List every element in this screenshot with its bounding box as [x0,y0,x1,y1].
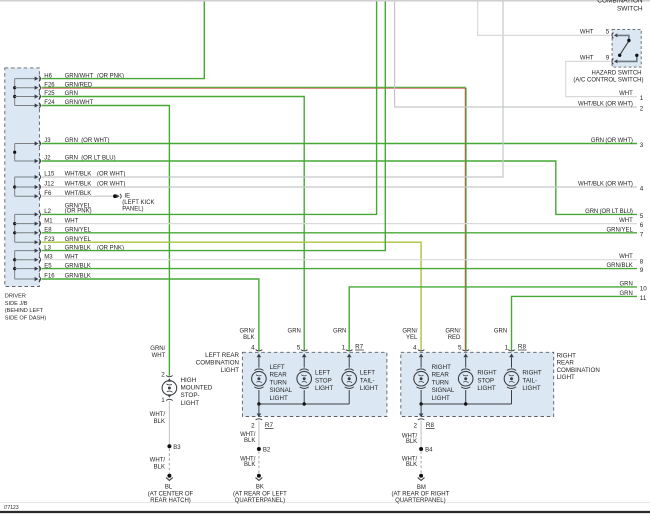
svg-text:(LEFT KICK: (LEFT KICK [122,200,154,206]
svg-text:GRN: GRN [333,328,346,334]
wire WHT/BLK (OR WHT) from top edge to off-page connector 2 [395,2,637,108]
ground BK [256,474,263,481]
label: F25 GRN [44,91,78,97]
wire L3 GRN/BLK (OR PNK): right then up to top edge [42,2,386,251]
svg-text:WHT: WHT [619,218,633,224]
pin 5 of right rear combination light [462,350,469,358]
pin 4 of left rear combination light [256,350,263,358]
svg-text:SWITCH: SWITCH [617,5,643,12]
wire WHT/BLK from left rear combination light to connector B2 [258,420,260,447]
connector B2 [257,447,271,453]
label: WHT at connector 8 [619,254,633,260]
svg-text:LEFT REAR: LEFT REAR [205,352,239,359]
label: GRN/WHT (high mounted stop light wire) [150,346,165,359]
svg-text:TURN: TURN [432,379,449,386]
label: BL (AT CENTER OF REAR HATCH) [148,485,194,504]
svg-text:LIGHT: LIGHT [522,385,540,392]
pin L2 [15,212,41,218]
label: H6 GRN/WHT [44,73,124,79]
label: F16 GRN/BLK [44,274,91,280]
svg-text:5: 5 [640,213,644,220]
svg-text:R7: R7 [355,344,364,351]
label: WHT/BLK (below B3) [150,457,166,470]
lamp: LEFT REAR TURN SIGNAL LIGHT [252,357,267,404]
svg-text:REAR: REAR [270,372,288,379]
lamp: LEFT TAIL-LIGHT [342,357,357,404]
svg-text:B4: B4 [425,447,433,453]
off-page connector 7 [640,231,644,238]
ground bus inside left rear combination light [257,402,349,413]
J/B internal bus B (J3/J2) [13,144,16,162]
svg-text:WHT: WHT [619,254,633,260]
svg-text:BLK: BLK [154,419,165,425]
label: WHT (hazard pin 5 wire) [580,29,594,35]
svg-text:(AT REAR OF LEFT: (AT REAR OF LEFT [233,491,287,497]
wire J2 GRN (OR LT BLU): right, jog down, to off-page connector 5 [42,161,638,214]
component box: RIGHT REAR COMBINATION LIGHT [401,352,554,416]
label: GRN/YEL at connector 7 [606,227,633,233]
svg-text:STOP-: STOP- [181,392,200,399]
svg-text:RIGHT: RIGHT [522,370,541,377]
svg-text:HAZARD SWITCH: HAZARD SWITCH [592,71,642,77]
svg-text:(BEHIND LEFT: (BEHIND LEFT [5,308,44,314]
wire WHT/BLK from B4 to ground BM (in-line) [420,451,422,473]
pin E8 [15,230,41,236]
wire L15 WHT/BLK (OR WHT): right then up to top edge [42,2,504,178]
svg-text:9: 9 [640,267,644,274]
label: GRN (left tail wire) [333,328,346,334]
svg-text:REAR: REAR [557,360,575,367]
wire WHT/BLK from right rear combination light to connector B4 [420,420,422,447]
label: pin 5 (right stop) [458,344,462,351]
label: pin 4 (left rear turn signal) [251,344,255,351]
svg-text:1: 1 [161,397,165,404]
label: pin 1 (right tail) [505,344,509,351]
label: BK (AT REAR OF LEFT QUARTERPANEL) [233,485,287,504]
svg-text:2: 2 [251,422,255,429]
label: L15 WHT/BLK [44,172,125,178]
pin M3 [15,257,41,263]
svg-text:GRN (OR LT BLU): GRN (OR LT BLU) [585,209,633,215]
label: GRN/BLK (left turn wire) [240,328,255,341]
off-page connector 3 [640,142,644,149]
svg-text:R8: R8 [426,422,435,429]
label: WHT/BLK (above B3) [150,412,166,425]
off-page connector 6 [640,222,644,229]
svg-text:8: 8 [640,258,644,265]
label: L2 GRN/YEL (OR PNK) [44,204,91,215]
label: GRN (OR WHT) at connector 3 [591,138,633,144]
svg-text:YEL: YEL [406,335,418,341]
svg-text:BLK: BLK [154,464,165,470]
pin J12 [15,184,41,190]
svg-text:WHT: WHT [619,91,633,97]
label: pin 4 (right rear turn signal) [413,344,417,351]
svg-text:LIGHT: LIGHT [315,385,333,392]
label: DRIVER SIDE J/B (BEHIND LEFT SIDE OF DASH) [5,293,46,321]
ground BL [166,474,173,481]
svg-text:SIDE J/B: SIDE J/B [5,301,28,307]
label: R7 (bottom) [265,422,274,429]
svg-text:9: 9 [606,54,610,61]
wire F23 GRN/YEL: right then down to right turn signal light pin 4 [42,242,422,350]
svg-text:BLK: BLK [243,335,254,341]
svg-text:4: 4 [413,344,417,351]
svg-text:BL: BL [165,485,173,491]
wire J12 WHT/BLK (OR WHT): straight to off-page connector 4 [42,186,638,188]
label: M1 WHT [44,218,78,224]
off-page connector 2 [640,106,644,113]
pin F6 [15,193,41,199]
svg-text:WHT: WHT [580,29,594,35]
wire F16 GRN/BLK: right then down to left turn signal light pin 4 [42,279,259,350]
wire M1 WHT: straight to off-page connector 6 [42,223,638,225]
svg-text:TAIL-: TAIL- [522,377,537,384]
pin L3 [15,248,41,254]
hazard switch box [612,29,641,67]
diagram id i77123 [4,505,19,511]
label: R7 (top) [355,344,364,351]
label: WHT/BLK (below B2) [240,456,256,468]
svg-text:QUARTERPANEL): QUARTERPANEL) [235,498,285,504]
svg-text:BLK: BLK [244,462,255,468]
label: pin 1 (left tail) [342,344,346,351]
wire WHT/BLK from high mounted stop light to connector B3 [168,401,170,445]
lamp: RIGHT REAR TURN SIGNAL LIGHT [414,357,429,404]
pin F23 [15,239,41,245]
lamp: HIGH MOUNTED STOP-LIGHT [162,376,177,401]
svg-text:IE: IE [125,194,131,200]
svg-text:TURN: TURN [270,379,287,386]
svg-text:TAIL-: TAIL- [360,377,375,384]
svg-text:BK: BK [256,485,264,491]
label: GRN (OR LT BLU) at connector 5 [585,209,633,215]
wire WHT/BLK from B3 to ground BL (in-line) [168,449,170,474]
pin J3 [15,141,41,147]
svg-text:(A/C CONTROL SWITCH): (A/C CONTROL SWITCH) [573,78,643,84]
svg-text:RIGHT: RIGHT [432,364,451,371]
svg-text:WHT/: WHT/ [150,457,166,463]
label: WHT/BLK (OR WHT) at connector 4 [578,182,633,188]
svg-text:GRN: GRN [494,328,507,334]
svg-text:RED: RED [448,335,461,341]
svg-text:i77123: i77123 [4,505,19,511]
svg-text:GRN (OR WHT): GRN (OR WHT) [591,138,633,144]
ground BM [418,474,425,481]
splice IE [113,194,121,199]
svg-text:HIGH: HIGH [181,377,197,384]
label: F23 GRN/YEL [44,237,91,243]
svg-text:5: 5 [297,344,301,351]
svg-text:STOP: STOP [477,377,494,384]
wire L2 GRN/YEL (OR PNK): right then up to top edge [42,2,377,215]
svg-text:LEFT: LEFT [315,370,330,377]
svg-text:BLK: BLK [406,439,417,445]
wire GRN: off-page connector 10 to left tail light pin 1 [349,287,637,350]
wire H6 GRN/WHT (OR PNK): right then up to top edge [42,2,205,79]
label: HIGH MOUNTED STOP-LIGHT [181,377,213,407]
svg-text:(OR PNK): (OR PNK) [65,209,92,215]
pin 2 of right rear combination light [418,414,425,420]
wire WHT from top edge to hazard switch pin 5 [478,2,610,36]
label: WHT at connector 1 [619,91,633,97]
wire J3 GRN (OR WHT): straight to off-page connector 3 [42,143,638,145]
svg-text:3: 3 [640,142,644,149]
off-page connector 1 [640,95,644,102]
svg-text:WHT/: WHT/ [150,412,166,418]
wire F26 GRN/RED: right then down to right stop light pin 5 [42,87,467,350]
label: J12 WHT/BLK [44,182,125,188]
label: GRN/RED (right stop wire) [445,328,461,341]
pin 1 of right rear combination light [508,350,515,358]
svg-text:4: 4 [640,186,644,193]
ground bus inside right rear combination light [419,402,511,413]
label: WHT/BLK (above B4) [402,433,418,445]
lamp: RIGHT STOP LIGHT [458,357,473,404]
svg-text:BLK: BLK [406,462,417,468]
svg-text:4: 4 [251,344,255,351]
off-page connector 9 [640,267,644,274]
pin J2 [15,158,41,164]
J/B internal bus E (L3/M3/E5/F16) [13,251,16,279]
svg-text:STOP: STOP [315,377,332,384]
svg-text:LIGHT: LIGHT [360,385,378,392]
svg-text:WHT/BLK (OR WHT): WHT/BLK (OR WHT) [578,182,633,188]
label: pin 1 (high mounted stop light) [161,397,165,404]
label: M3 WHT [44,254,78,260]
label: RIGHT REAR TURN SIGNAL LIGHT [432,364,455,402]
svg-text:B2: B2 [263,447,271,453]
svg-text:6: 6 [640,222,644,229]
svg-text:1: 1 [505,344,509,351]
pin L15 [15,174,41,180]
svg-text:1: 1 [342,344,346,351]
hazard switch pin 9 [612,59,618,65]
label: pin 2 (right rear combination light) [413,422,417,429]
svg-text:GRN/: GRN/ [240,328,255,334]
wire E8 GRN/YEL: straight to off-page connector 7 [42,232,638,234]
J/B internal bus A (H6/F26/F25/F24) [13,79,16,106]
label: RIGHT TAIL-LIGHT [522,370,541,392]
label: WHT/BLK (below B4) [402,456,418,468]
off-page connector 11 [640,295,647,302]
svg-text:BLK: BLK [244,438,255,444]
pin F26 [15,85,41,91]
wire M3 WHT: straight to off-page connector 8 [42,259,638,261]
svg-text:WHT/BLK (OR WHT): WHT/BLK (OR WHT) [578,102,633,108]
svg-text:LIGHT: LIGHT [557,374,575,381]
wire GRN: off-page connector 11 to right tail light pin 1 [512,296,638,350]
svg-text:B3: B3 [173,445,181,451]
svg-text:10: 10 [640,286,648,293]
svg-text:GRN/: GRN/ [150,346,165,352]
label: F24 GRN/WHT [44,100,93,106]
off-page connector 10 [640,286,648,293]
pin M1 [15,221,41,227]
label: HAZARD SWITCH (A/C CONTROL SWITCH) [573,71,643,84]
svg-text:1: 1 [640,95,644,102]
svg-text:MOUNTED: MOUNTED [181,385,213,392]
pin F16 [15,276,41,282]
svg-text:LIGHT: LIGHT [477,385,495,392]
pin F24 [15,103,41,109]
svg-text:LIGHT: LIGHT [270,395,288,402]
label: L3 GRN/BLK [44,245,124,251]
svg-text:QUARTERPANEL): QUARTERPANEL) [395,498,445,504]
wire F24 GRN/WHT: right then down to high mounted stop light [42,106,170,376]
label: GRN/YEL (right turn wire) [402,328,418,341]
svg-text:11: 11 [640,295,647,302]
label: pin 2 (left rear combination light) [251,422,255,429]
svg-text:2: 2 [640,106,644,113]
component box: LEFT REAR COMBINATION LIGHT [242,352,387,416]
label: GRN (left stop wire) [288,328,301,334]
svg-text:RIGHT: RIGHT [477,370,496,377]
label: LEFT REAR TURN SIGNAL LIGHT [270,364,293,402]
svg-text:WHT: WHT [580,55,594,61]
label: LEFT REAR COMBINATION LIGHT [196,352,240,374]
svg-text:(AT REAR OF RIGHT: (AT REAR OF RIGHT [392,491,450,497]
svg-text:R8: R8 [518,344,527,351]
svg-text:SIGNAL: SIGNAL [270,387,293,394]
label: GRN (right tail wire) [494,328,507,334]
label: WHT at connector 6 [619,218,633,224]
svg-text:SIDE OF DASH): SIDE OF DASH) [5,316,46,322]
label: BM (AT REAR OF RIGHT QUARTERPANEL) [392,485,450,504]
label: R8 (top) [518,344,527,351]
svg-text:R7: R7 [265,422,274,429]
svg-text:DRIVER: DRIVER [5,293,26,299]
label: F26 GRN/RED [44,82,93,88]
hazard switch contacts and blade [617,35,639,61]
wire E5 GRN/BLK: straight to off-page connector 9 [42,268,638,270]
label: E5 GRN/BLK [44,263,91,269]
pin 2 of left rear combination light [256,414,263,420]
svg-text:COMBINATION: COMBINATION [557,367,600,374]
svg-text:7: 7 [640,231,644,238]
label: LEFT TAIL-LIGHT [360,370,378,392]
svg-text:LEFT: LEFT [360,370,375,377]
label: F6 WHT/BLK [44,191,91,197]
label: RIGHT STOP LIGHT [477,370,496,392]
svg-text:5: 5 [606,28,610,35]
wire WHT/BLK from B2 to ground BK (in-line) [258,451,260,473]
pin 4 of right rear combination light [418,350,425,358]
svg-text:REAR: REAR [432,372,450,379]
label: GRN/BLK at connector 9 [606,263,632,269]
pin 1 of left rear combination light [346,350,353,358]
lamp: LEFT STOP LIGHT [297,357,312,404]
svg-text:GRN/BLK: GRN/BLK [606,263,632,269]
pin E5 [15,266,41,272]
label: pin 5 (left stop) [297,344,301,351]
label: GRN at connector 11 [619,291,632,297]
label: WHT (hazard pin 9 wire) [580,55,594,61]
J/B internal bus C (L15/J12/F6) [13,177,16,196]
svg-text:GRN: GRN [288,328,301,334]
svg-text:GRN/YEL: GRN/YEL [606,227,633,233]
off-page connector 4 [640,186,644,193]
wire F6 WHT/BLK to splice IE [42,195,114,197]
label: RIGHT REAR COMBINATION LIGHT [557,352,600,381]
label: WHT/BLK (above B2) [240,432,256,444]
pin F25 [15,94,41,100]
svg-text:BM: BM [417,485,426,491]
svg-text:LIGHT: LIGHT [432,395,450,402]
label: R8 (bottom) [426,422,435,429]
svg-text:LIGHT: LIGHT [181,400,200,407]
label: J2 GRN [44,156,115,162]
wire WHT from hazard pin 9 to off-page connector 1 [566,61,637,96]
junction block: DRIVER SIDE J/B [5,68,40,287]
label: pin 9 [606,54,610,61]
svg-text:LIGHT: LIGHT [221,367,239,374]
label: J3 GRN [44,138,109,144]
off-page connector 5 [640,213,644,220]
svg-text:2: 2 [413,422,417,429]
label: COMBINATION SWITCH [597,0,643,12]
label: GRN at connector 10 [619,281,632,287]
pin 5 of left rear combination light [301,350,308,358]
label: IE (LEFT KICK PANEL) [122,194,154,213]
svg-text:COMBINATION: COMBINATION [196,359,239,366]
svg-text:COMBINATION: COMBINATION [597,0,643,5]
svg-text:GRN/: GRN/ [402,328,417,334]
svg-text:REAR HATCH): REAR HATCH) [150,498,191,504]
wire F25 GRN: right then down to left stop light pin 5 [42,97,305,351]
svg-text:2: 2 [161,372,165,379]
hazard switch pin 5 [612,33,618,39]
lamp: RIGHT TAIL-LIGHT [504,357,519,404]
label: pin 5 [606,28,610,35]
svg-text:LEFT: LEFT [270,364,285,371]
svg-text:5: 5 [458,344,462,351]
label: WHT/BLK (OR WHT) at connector 2 [578,102,633,108]
J/B internal bus D (L2/M1/E8/F23) [13,214,16,242]
svg-text:(AT CENTER OF: (AT CENTER OF [148,491,194,497]
label: LEFT STOP LIGHT [315,370,333,392]
svg-text:WHT: WHT [152,353,166,359]
label: pin 2 (high mounted stop light) [161,372,165,379]
connector B4 [419,447,433,453]
off-page connector 8 [640,258,644,265]
pin H6 [15,76,41,82]
svg-text:GRN/: GRN/ [445,328,460,334]
svg-text:RIGHT: RIGHT [557,352,576,359]
connector B3 [167,444,181,451]
svg-text:SIGNAL: SIGNAL [432,387,455,394]
svg-text:PANEL): PANEL) [122,207,143,213]
label: E8 GRN/YEL [44,228,91,234]
